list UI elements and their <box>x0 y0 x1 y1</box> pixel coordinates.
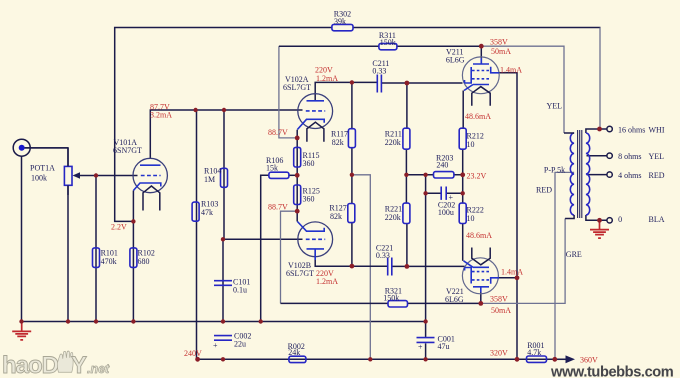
svg-text:+: + <box>418 343 423 352</box>
svg-text:1.2mA: 1.2mA <box>316 277 338 286</box>
wire: jack sleeve to ground <box>21 156 23 321</box>
svg-text:22u: 22u <box>234 340 246 349</box>
svg-text:47u: 47u <box>438 342 450 351</box>
wire: B+ 240/320/360V bottom rail <box>198 358 567 360</box>
wire: V101A cathode / R102 to ground <box>132 191 134 322</box>
wire: V211 plate lead <box>480 46 482 64</box>
terminal 0 BLA <box>607 218 612 223</box>
svg-text:100k: 100k <box>31 174 47 183</box>
svg-text:0.33: 0.33 <box>376 251 390 260</box>
svg-text:39k: 39k <box>334 17 346 26</box>
svg-text:150k: 150k <box>380 38 396 47</box>
svg-text:0: 0 <box>618 215 622 224</box>
wire: feedback drop to 16 ohm tap <box>599 28 601 130</box>
wire: V221 plate to transformer primary bottom GRE <box>481 219 565 304</box>
triode V102A <box>297 94 332 142</box>
wire: V211 cathode to R212 <box>462 91 464 129</box>
wire: pot bottom to ground <box>67 185 69 321</box>
resistor R311 <box>379 43 397 49</box>
wire: C101 column <box>222 239 224 321</box>
wire: R101 to ground <box>95 176 97 322</box>
svg-text:RED: RED <box>649 171 665 180</box>
svg-text:YEL: YEL <box>547 102 563 111</box>
resistor R321 <box>388 301 408 307</box>
svg-text:23.2V: 23.2V <box>467 172 487 181</box>
ground symbol at transformer secondary <box>590 220 609 238</box>
output transformer T1 primary <box>564 133 574 219</box>
wire: R103 plate load to 240V rail <box>196 110 198 359</box>
resistor R212 <box>459 128 466 149</box>
resistor R211 <box>403 128 410 149</box>
resistor R221 <box>403 203 410 223</box>
svg-text:16 ohms: 16 ohms <box>618 126 645 135</box>
wire: C202 connections <box>426 175 463 359</box>
wire: feedback right segment R302 to 16ohm tap <box>353 27 601 29</box>
svg-text:0.33: 0.33 <box>372 67 386 76</box>
svg-text:88.7V: 88.7V <box>268 203 288 212</box>
svg-text:2.2V: 2.2V <box>111 223 127 232</box>
capacitor C211 <box>377 75 381 93</box>
terminal 8 ohms YEL <box>607 153 612 158</box>
svg-text:240: 240 <box>436 161 448 170</box>
svg-text:8 ohms: 8 ohms <box>618 152 641 161</box>
wire: ground bus <box>22 321 426 323</box>
svg-text:88.7V: 88.7V <box>268 128 288 137</box>
svg-text:6L6G: 6L6G <box>445 295 464 304</box>
svg-text:360: 360 <box>303 159 315 168</box>
resistor R203 <box>434 172 454 178</box>
capacitor C002 <box>213 336 232 350</box>
svg-text:358V: 358V <box>490 295 508 304</box>
svg-text:150k: 150k <box>383 294 399 303</box>
wire: transformer centre tap to 360V <box>555 172 574 359</box>
svg-text:470k: 470k <box>101 257 117 266</box>
svg-text:358V: 358V <box>490 38 508 47</box>
resistor R115 <box>294 147 301 167</box>
wire: R115 R125 cathode chain <box>296 130 298 222</box>
wire: R117 column <box>351 82 353 266</box>
svg-text:240V: 240V <box>184 349 202 358</box>
resistor R103 <box>192 202 199 221</box>
svg-text:50mA: 50mA <box>491 306 511 315</box>
wire: R212 to 23.2V node <box>462 149 464 175</box>
beam tetrode V221 <box>462 248 499 294</box>
svg-text:4.7k: 4.7k <box>527 348 541 357</box>
svg-text:100u: 100u <box>438 208 454 217</box>
triode V101A <box>133 158 167 210</box>
svg-text:48.6mA: 48.6mA <box>465 112 491 121</box>
svg-text:6SN7GT: 6SN7GT <box>113 146 142 155</box>
svg-text:82k: 82k <box>330 212 342 221</box>
wire: 358V to transformer primary top YEL <box>481 46 564 133</box>
capacitor C221 <box>388 258 392 276</box>
svg-text:1.2mA: 1.2mA <box>316 74 338 83</box>
wire: V102B grid node to grid <box>223 238 303 240</box>
wire: 23.2V node row R211 R203 R222 <box>406 149 462 203</box>
wire: R321 left lead <box>281 302 389 304</box>
wire: R311 to 358V plate line of V211 <box>279 45 481 47</box>
svg-text:WHI: WHI <box>649 126 665 135</box>
svg-text:10: 10 <box>467 214 475 223</box>
capacitor C202 <box>441 187 453 203</box>
resistor R117 <box>348 129 355 148</box>
wire: V221 plate lead <box>480 293 482 304</box>
wire: R321 line from V221 plate <box>408 302 481 304</box>
ground symbol at input <box>12 322 31 340</box>
svg-text:3.2mA: 3.2mA <box>150 111 172 120</box>
svg-text:1M: 1M <box>204 175 215 184</box>
resistor R104 <box>221 168 228 187</box>
svg-text:6L6G: 6L6G <box>446 56 465 65</box>
wire: Schade feedback R311 to V102A cathode <box>279 46 297 138</box>
svg-text:47k: 47k <box>201 208 213 217</box>
svg-text:320V: 320V <box>490 349 508 358</box>
svg-text:50mA: 50mA <box>491 47 511 56</box>
capacitor C001 <box>417 338 435 352</box>
resistor R302 <box>332 24 353 30</box>
svg-text:48.6mA: 48.6mA <box>466 231 492 240</box>
svg-text:.net: .net <box>87 362 110 376</box>
svg-text:Y: Y <box>71 352 87 378</box>
wire: V221 screen stub <box>499 277 517 279</box>
svg-text:15k: 15k <box>266 164 278 173</box>
resistor R002 <box>289 356 306 362</box>
svg-text:4 ohms: 4 ohms <box>618 171 641 180</box>
svg-text:RED: RED <box>536 186 552 195</box>
resistor R001 <box>527 356 547 362</box>
capacitor C101 <box>214 281 232 286</box>
svg-text:10: 10 <box>467 140 475 149</box>
svg-text:P-P 5k: P-P 5k <box>544 166 565 175</box>
svg-text:360V: 360V <box>580 356 598 365</box>
wire: R222 to V221 cathode <box>462 224 464 261</box>
svg-text:1.4mA: 1.4mA <box>500 66 522 75</box>
wire: R104 column 87.7V to V102B grid node <box>223 110 225 239</box>
wire: R106 right lead <box>289 174 297 176</box>
wire: pot wiper to V101A grid <box>80 175 138 177</box>
wire: V102A plate to C211 and R211 junction <box>315 82 377 100</box>
triode V102B <box>297 222 332 261</box>
svg-text:+: + <box>213 341 218 350</box>
potentiometer POT1A <box>64 148 80 195</box>
svg-text:0.1u: 0.1u <box>233 286 247 295</box>
wire: 360V arrow <box>555 355 575 363</box>
svg-text:1.4mA: 1.4mA <box>501 268 523 277</box>
wire: V102B plate to C221 and V221 grid <box>315 224 464 267</box>
svg-text:24k: 24k <box>288 348 300 357</box>
svg-text:220k: 220k <box>385 138 401 147</box>
wire: secondary taps <box>586 129 607 220</box>
resistor R127 <box>348 204 355 223</box>
wire: R106 left leg to ground <box>261 175 269 321</box>
input jack J1 <box>13 139 68 156</box>
svg-text:82k: 82k <box>332 138 344 147</box>
terminal 16 ohms WHI <box>607 126 612 131</box>
resistor R102 <box>130 248 137 268</box>
wire: global feedback from 16ohm tap to V101A cathode <box>115 28 332 222</box>
wire: V211 screen to 320V column <box>499 73 517 360</box>
beam tetrode V211 <box>462 57 499 106</box>
resistor R125 <box>294 185 301 205</box>
watermark haoDIY.net <box>2 351 110 378</box>
output transformer T1 core <box>578 130 582 218</box>
svg-text:POT1A: POT1A <box>30 164 55 173</box>
svg-text:www.tubebbs.com: www.tubebbs.com <box>550 365 674 378</box>
wire: C211 right to V211 grid <box>381 83 462 128</box>
wire: gray B+ feed to driver plate loads <box>352 175 370 359</box>
svg-text:360: 360 <box>303 195 315 204</box>
wire: Schade feedback R321 to V102B cathode <box>281 211 298 303</box>
wire: V101A plate 87.7V node to V102A grid <box>150 110 302 159</box>
svg-text:YEL: YEL <box>649 152 665 161</box>
terminal 4 ohms RED <box>607 172 612 177</box>
svg-text:BLA: BLA <box>649 215 665 224</box>
svg-text:220k: 220k <box>385 213 401 222</box>
output transformer T1 secondary <box>586 133 590 215</box>
svg-text:6SL7GT: 6SL7GT <box>286 269 314 278</box>
resistor R101 <box>93 248 100 268</box>
resistor R222 <box>459 203 466 223</box>
svg-text:6SL7GT: 6SL7GT <box>283 83 311 92</box>
svg-text:haoD: haoD <box>2 352 59 378</box>
svg-text:GRE: GRE <box>566 250 582 259</box>
watermark www.tubebbs.com <box>550 365 674 378</box>
resistor R106 <box>269 172 289 178</box>
wire: input jack to volume pot <box>22 148 69 167</box>
svg-text:680: 680 <box>138 257 150 266</box>
